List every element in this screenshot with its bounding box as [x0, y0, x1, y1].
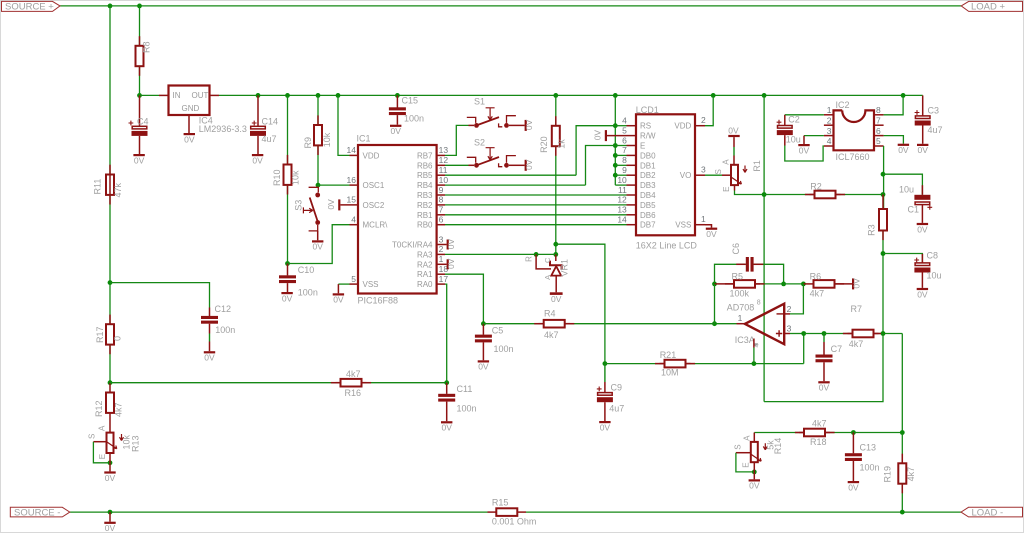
- wire R19 bottom to rail: [901, 484, 903, 512]
- svg-text:10M: 10M: [661, 367, 679, 377]
- svg-text:17: 17: [439, 274, 449, 284]
- pin RB3 9: [437, 194, 445, 196]
- pin DB1 8: [627, 164, 637, 166]
- svg-text:R4: R4: [544, 308, 556, 318]
- svg-text:C15: C15: [402, 95, 419, 105]
- wire R13 wiper loop: [93, 441, 106, 443]
- svg-text:IC2: IC2: [836, 100, 850, 110]
- resistor R19 4k7: [901, 433, 903, 464]
- svg-text:4k7: 4k7: [812, 419, 827, 429]
- svg-text:0V: 0V: [728, 125, 739, 135]
- svg-text:C5: C5: [492, 325, 504, 335]
- svg-text:0V: 0V: [252, 155, 263, 165]
- junction RS: [613, 123, 618, 128]
- junction DB1: [613, 163, 618, 168]
- pin OSC1 16: [350, 184, 359, 186]
- svg-text:1: 1: [738, 313, 743, 323]
- junction Vneg/C1: [881, 172, 886, 177]
- ground 0V rotated at OSC2: [338, 199, 340, 210]
- svg-text:0V: 0V: [600, 422, 611, 432]
- svg-text:5: 5: [351, 274, 356, 284]
- svg-text:0V: 0V: [917, 224, 928, 234]
- ground 0V at VSS: [338, 283, 349, 285]
- wire R9 bottom to OSC1 node: [317, 145, 319, 185]
- pin OSC2 15: [341, 204, 359, 206]
- wire RB5 row: [445, 174, 576, 176]
- svg-text:8: 8: [876, 105, 881, 115]
- wire C12 branch: [110, 283, 210, 308]
- junction R10/C10/MCLR: [285, 261, 290, 266]
- svg-text:8: 8: [439, 195, 444, 205]
- svg-text:R16: R16: [345, 388, 362, 398]
- svg-text:4: 4: [827, 136, 832, 146]
- wire R18 row: [754, 432, 799, 434]
- wire R21 to opamp pin3/pin4 net: [691, 363, 804, 365]
- potentiometer R14 5k: [753, 433, 755, 442]
- svg-text:C7: C7: [831, 344, 843, 354]
- wire R17-R16 net: [109, 345, 111, 383]
- wire RA3 to VR1: [445, 253, 556, 255]
- svg-text:OSC1: OSC1: [363, 181, 385, 190]
- svg-text:LCD1: LCD1: [636, 105, 659, 115]
- pin DB0 7: [627, 154, 637, 156]
- svg-text:11: 11: [618, 185, 627, 195]
- IC IC2 ICL7660 body: [834, 110, 875, 150]
- pin R/W 5: [627, 135, 637, 137]
- wire IC2 pin8 to rail: [884, 95, 904, 114]
- junction R11/R17/C12: [108, 280, 113, 285]
- capacitor C5 100n: [482, 324, 484, 335]
- ground 0V under C7: [823, 362, 825, 381]
- svg-text:4u7: 4u7: [928, 125, 943, 135]
- junction R13 bottom: [108, 460, 113, 465]
- svg-text:E: E: [98, 454, 107, 459]
- svg-text:RA3: RA3: [417, 250, 433, 259]
- potentiometer R1: [731, 165, 738, 185]
- wire RA1 down to C5 node: [445, 274, 483, 324]
- svg-text:SOURCE +: SOURCE +: [5, 1, 54, 12]
- wire R11-R17 net: [109, 195, 111, 324]
- svg-text:0V: 0V: [524, 159, 534, 170]
- svg-text:C2: C2: [788, 114, 800, 124]
- svg-text:5: 5: [876, 136, 881, 146]
- svg-text:R15: R15: [492, 497, 509, 507]
- junction VR1 R pin: [534, 252, 539, 257]
- svg-text:VDD: VDD: [674, 122, 691, 131]
- svg-text:4k7: 4k7: [544, 330, 559, 340]
- svg-text:R13: R13: [130, 435, 140, 452]
- svg-text:C6: C6: [731, 243, 741, 255]
- svg-text:E: E: [640, 142, 645, 151]
- svg-text:DB6: DB6: [640, 211, 656, 220]
- capacitor C1 10u (polarized inverted): [883, 174, 922, 195]
- svg-text:RB2: RB2: [417, 201, 433, 210]
- svg-text:S2: S2: [474, 138, 485, 148]
- junction R18-row/R19: [900, 430, 905, 435]
- junction VR1 net / R21 branch: [553, 242, 558, 247]
- svg-text:0V: 0V: [593, 130, 603, 141]
- svg-text:R2: R2: [810, 181, 822, 191]
- svg-text:RB3: RB3: [417, 191, 433, 200]
- ground 0V under C15: [396, 115, 398, 125]
- svg-text:A: A: [98, 425, 107, 431]
- svg-text:C10: C10: [298, 265, 315, 275]
- resistor R17 0: [106, 324, 114, 344]
- svg-text:3: 3: [787, 324, 792, 334]
- svg-text:R17: R17: [95, 326, 105, 343]
- junction C5/R4: [481, 321, 486, 326]
- junction bottom-rail 0V: [108, 510, 113, 515]
- ground 0V under R13: [109, 463, 111, 472]
- wire pin3 row: [804, 333, 824, 335]
- svg-text:RB1: RB1: [417, 211, 433, 220]
- svg-text:R6: R6: [810, 271, 822, 281]
- pin IC2-6: [874, 135, 884, 137]
- svg-text:0V: 0V: [105, 523, 116, 533]
- svg-text:0V: 0V: [851, 278, 861, 289]
- ground 0V rotated at RA4: [445, 244, 447, 246]
- svg-text:0: 0: [112, 336, 122, 341]
- resistor R4 4k7: [483, 323, 538, 325]
- switch S1: [467, 117, 476, 123]
- pin DB4 11: [627, 194, 637, 196]
- resistor R6 4k7: [803, 283, 813, 285]
- junction R7/feedback loop: [881, 331, 886, 336]
- junction C7 top: [822, 331, 827, 336]
- wire IN pin: [140, 94, 160, 96]
- svg-text:S1: S1: [474, 97, 485, 107]
- ground 0V under S3: [317, 231, 319, 240]
- svg-text:1: 1: [827, 105, 832, 115]
- svg-text:10u: 10u: [899, 185, 914, 195]
- wire opamp pin4: [753, 339, 755, 348]
- pin E 6: [627, 145, 637, 147]
- junction rail/IC1 VDD: [336, 93, 341, 98]
- svg-text:DB4: DB4: [640, 191, 656, 200]
- wire DB2 stub link: [615, 174, 626, 176]
- wire RB1-DB6 row: [445, 214, 627, 216]
- resistor R11 47k: [109, 174, 111, 195]
- svg-text:PIC16F88: PIC16F88: [358, 296, 399, 306]
- svg-text:8: 8: [757, 300, 761, 307]
- ground 0V under C9: [604, 402, 606, 421]
- wire R7 net down to R18 row: [901, 334, 903, 433]
- svg-text:R8: R8: [142, 41, 152, 53]
- svg-text:SOURCE -: SOURCE -: [14, 507, 60, 518]
- ground 0V under C12: [209, 324, 211, 334]
- pin IC2-8: [874, 114, 884, 116]
- pin VDD 14: [350, 154, 359, 156]
- svg-text:2: 2: [827, 115, 832, 125]
- svg-text:4: 4: [351, 215, 356, 225]
- svg-text:6: 6: [876, 126, 881, 136]
- svg-text:1k: 1k: [557, 139, 567, 149]
- resistor R16 4k7: [336, 382, 341, 384]
- wire RB7 to S1: [445, 125, 469, 155]
- wire OSC1 pin: [318, 184, 350, 186]
- svg-text:DB3: DB3: [640, 181, 656, 190]
- wire opamp output pin1: [737, 323, 745, 325]
- svg-text:S: S: [714, 169, 723, 174]
- svg-text:0V: 0V: [105, 473, 116, 483]
- svg-text:13: 13: [439, 145, 449, 155]
- svg-text:RB0: RB0: [417, 221, 433, 230]
- ground 0V under C11: [446, 402, 448, 422]
- wire R8 to IN node: [139, 66, 141, 95]
- resistor R15 0.001 Ohm: [488, 511, 497, 513]
- wire R3 bottom: [882, 231, 884, 334]
- svg-text:DB2: DB2: [640, 171, 656, 180]
- net SOURCE+ top rail wire: [60, 5, 961, 7]
- svg-text:RB5: RB5: [417, 171, 433, 180]
- svg-text:2: 2: [701, 115, 706, 125]
- junction rail/LCD VDD: [711, 93, 716, 98]
- wire LCD control column: [614, 95, 616, 185]
- wire C2 bottom to IC2 pin4: [784, 135, 786, 145]
- wire E jog to RB4: [586, 146, 616, 186]
- svg-text:RB6: RB6: [417, 161, 433, 170]
- svg-text:RS: RS: [640, 122, 651, 131]
- svg-text:0V: 0V: [282, 293, 293, 303]
- ground 0V under C3: [922, 126, 924, 144]
- zener/reference VR1: [555, 254, 557, 261]
- wire RA0 down to C11 node: [445, 284, 447, 383]
- wire VO to R1 wiper: [705, 174, 722, 176]
- junction R1/R2 row: [762, 192, 767, 197]
- svg-text:3: 3: [827, 126, 832, 136]
- svg-text:R5: R5: [732, 271, 744, 281]
- junction top rail / R8: [137, 4, 142, 9]
- svg-text:VR1: VR1: [560, 259, 570, 277]
- junction R5 left / opamp out: [712, 282, 717, 287]
- svg-text:VDD: VDD: [363, 151, 380, 160]
- junction DB2: [613, 173, 618, 178]
- svg-text:7: 7: [439, 205, 444, 215]
- wire RB0-DB7 row: [445, 224, 627, 226]
- wire R20 bottom to VR1: [555, 146, 557, 254]
- pin RA0 17: [437, 283, 445, 285]
- svg-text:A: A: [743, 435, 752, 441]
- svg-text:4k7: 4k7: [346, 369, 361, 379]
- svg-text:5: 5: [622, 125, 627, 135]
- svg-text:8: 8: [622, 155, 627, 165]
- wire output to R5 node: [714, 284, 716, 324]
- wire C13 row to R19: [853, 432, 902, 434]
- svg-text:0V: 0V: [184, 134, 195, 144]
- ground 0V at IC2 pin3: [804, 135, 824, 137]
- svg-text:DB5: DB5: [640, 201, 656, 210]
- junction OSC1/R9/S3: [316, 183, 321, 188]
- svg-text:14: 14: [347, 145, 357, 155]
- junction rail/C14: [256, 93, 261, 98]
- capacitor C12 100n: [209, 308, 211, 318]
- svg-text:R12: R12: [94, 400, 104, 417]
- svg-text:LM2936-3.3: LM2936-3.3: [199, 124, 247, 134]
- svg-text:3: 3: [701, 165, 706, 175]
- svg-text:6: 6: [439, 215, 444, 225]
- wire RB6 to S2: [445, 164, 469, 166]
- svg-text:2: 2: [787, 304, 792, 314]
- junction R17/R16/R12: [108, 380, 113, 385]
- svg-text:R3: R3: [867, 224, 877, 236]
- svg-text:S3: S3: [293, 200, 303, 211]
- ground 0V under C14: [257, 136, 259, 154]
- capacitor C15 100n: [396, 95, 398, 108]
- svg-text:R18: R18: [810, 437, 827, 447]
- pin IC2-7: [874, 124, 884, 126]
- capacitor C6 (horizontal): [715, 264, 746, 284]
- svg-text:R11: R11: [93, 179, 103, 195]
- pin RS 4: [627, 125, 637, 127]
- svg-text:DB7: DB7: [640, 221, 656, 230]
- wire R12-R13: [109, 413, 111, 433]
- IC IC1 PIC16F88 body: [358, 145, 437, 294]
- component pin stubs overlay: [139, 36, 141, 46]
- svg-text:15: 15: [347, 195, 357, 205]
- ground 0V rotated right of S1: [525, 120, 527, 131]
- resistor R9 10k: [314, 125, 322, 145]
- svg-text:13: 13: [617, 205, 627, 215]
- svg-text:IN: IN: [173, 91, 181, 100]
- wire E stub link: [615, 145, 626, 147]
- svg-text:VSS: VSS: [675, 221, 691, 230]
- svg-text:4u7: 4u7: [262, 134, 277, 144]
- capacitor C10 100n: [287, 264, 289, 276]
- wire R1 net vertical (rail to feedback loop): [763, 95, 765, 401]
- pin VDD 2: [695, 125, 705, 127]
- switch S2: [467, 157, 476, 163]
- svg-text:R14: R14: [773, 438, 783, 455]
- resistor R2: [764, 194, 809, 196]
- wire MCLR net: [288, 225, 350, 264]
- svg-text:0V: 0V: [333, 295, 344, 305]
- svg-text:T0CKI/RA4: T0CKI/RA4: [392, 241, 433, 250]
- pin DB7 14: [627, 224, 637, 226]
- svg-text:C: C: [543, 257, 552, 263]
- junction R14 bottom: [752, 470, 757, 475]
- svg-text:4: 4: [622, 116, 627, 126]
- junction rail/R1 net: [762, 93, 767, 98]
- ground 0V under C13: [852, 461, 854, 481]
- wire to R21/C9 column: [556, 244, 605, 363]
- ground 0V rotated right of S2: [525, 160, 527, 171]
- svg-text:RB7: RB7: [417, 151, 433, 160]
- pin VO 3: [695, 174, 705, 176]
- svg-text:0V: 0V: [326, 199, 336, 210]
- svg-text:A: A: [722, 159, 731, 165]
- svg-text:0V: 0V: [551, 294, 562, 304]
- wire RS stub link: [615, 125, 626, 127]
- svg-text:100n: 100n: [298, 287, 318, 297]
- wire LCD VDD: [705, 95, 713, 125]
- svg-text:4k7: 4k7: [849, 339, 864, 349]
- ground 0V under IC4 GND pin: [188, 115, 190, 133]
- junction C13 top: [851, 430, 856, 435]
- svg-text:R7: R7: [851, 304, 863, 314]
- ground 0V rotated right of R6: [852, 278, 854, 289]
- pin IC2-2: [824, 124, 834, 126]
- net SOURCE- bottom rail wire: [70, 511, 488, 513]
- svg-text:OUT: OUT: [192, 91, 209, 100]
- junction R19/bottom rail: [900, 510, 905, 515]
- svg-text:DB0: DB0: [640, 151, 656, 160]
- resistor R10 10k: [284, 165, 292, 185]
- wire S1 right lead to 0V: [509, 124, 525, 126]
- svg-text:11: 11: [439, 165, 448, 175]
- flag LOAD+: [961, 1, 1022, 11]
- resistor R5 100k: [715, 283, 735, 285]
- svg-text:0V: 0V: [848, 482, 859, 492]
- wire R8 top: [139, 6, 141, 46]
- svg-text:16X2 Line LCD: 16X2 Line LCD: [636, 240, 698, 250]
- ground 0V under LCD VSS: [705, 225, 712, 228]
- svg-text:DB1: DB1: [640, 161, 656, 170]
- pin RA3 2: [437, 253, 445, 255]
- svg-text:0V: 0V: [917, 145, 928, 155]
- junction R8/C4/IN: [137, 93, 142, 98]
- capacitor C13 100n: [852, 433, 854, 454]
- ground 0V under C10: [287, 283, 289, 292]
- svg-text:R1: R1: [752, 160, 762, 172]
- svg-text:7: 7: [876, 115, 881, 125]
- svg-text:0V: 0V: [524, 119, 534, 130]
- svg-text:R/W: R/W: [640, 132, 656, 141]
- resistor R3: [882, 195, 884, 210]
- junction R16/C11/RA0: [444, 380, 449, 385]
- svg-text:0V: 0V: [134, 155, 145, 165]
- pin IC2-5: [874, 145, 884, 147]
- svg-text:100n: 100n: [494, 344, 514, 354]
- junction R6 left / opamp pin2: [801, 282, 806, 287]
- junction E: [613, 143, 618, 148]
- junction VR1 cathode row: [553, 252, 558, 257]
- svg-text:0V: 0V: [446, 238, 456, 249]
- svg-text:4k7: 4k7: [810, 289, 825, 299]
- svg-text:0.001 Ohm: 0.001 Ohm: [492, 516, 537, 526]
- wire DB0 stub link: [615, 154, 626, 156]
- pin RB5 11: [437, 174, 445, 176]
- svg-text:MCLR\: MCLR\: [363, 221, 389, 230]
- pin IC2-3: [824, 135, 834, 137]
- svg-text:0V: 0V: [819, 383, 830, 393]
- pin RA1 18: [437, 273, 445, 275]
- wire R11 net: [109, 6, 111, 174]
- svg-text:1: 1: [701, 214, 706, 224]
- svg-text:1: 1: [439, 254, 444, 264]
- svg-text:VSS: VSS: [363, 280, 379, 289]
- wire R14 wiper loop: [736, 452, 751, 454]
- svg-text:R19: R19: [882, 466, 892, 483]
- svg-text:C4: C4: [137, 116, 149, 126]
- ground 0V rotated at RA2: [445, 263, 447, 265]
- capacitor C4 (polarized): [139, 95, 141, 126]
- pin RB6 12: [437, 164, 445, 166]
- capacitor C3 4u7 (polarized): [922, 95, 924, 116]
- capacitor C11 100n: [446, 383, 448, 394]
- resistor R12 4k7: [109, 383, 111, 393]
- pin DB5 12: [627, 204, 637, 206]
- wire R16 row: [110, 382, 336, 384]
- svg-text:S: S: [734, 444, 743, 449]
- svg-text:C12: C12: [215, 304, 232, 314]
- junction output/R4: [712, 321, 717, 326]
- svg-text:10k: 10k: [322, 132, 332, 147]
- svg-text:R21: R21: [660, 350, 677, 360]
- pin VSS 1: [695, 224, 705, 226]
- svg-text:10: 10: [439, 175, 449, 185]
- junction opamp pin4 stub: [752, 361, 757, 366]
- pin RB0 6: [437, 224, 445, 226]
